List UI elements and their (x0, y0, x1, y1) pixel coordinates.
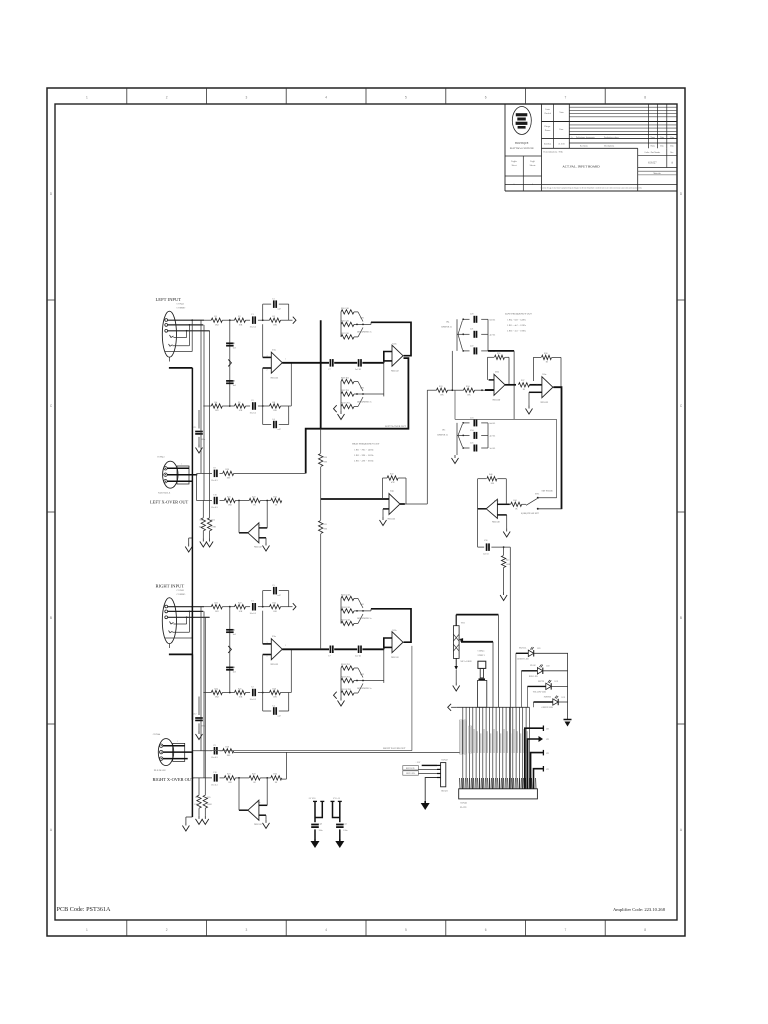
svg-text:R1: R1 (215, 316, 218, 318)
capacitor C8 coupling (358, 359, 360, 367)
potentiometer VR1 (MCA-SUB) (453, 626, 459, 659)
svg-text:C2: C2 (251, 400, 254, 402)
svg-text:Fogli: Fogli (530, 160, 535, 163)
plate teeth (459, 778, 461, 789)
svg-text:2: 2 (166, 96, 168, 100)
resistor R32 feedback (387, 476, 398, 480)
svg-text:1 JK1 = 7K5 = 140Hz: 1 JK1 = 7K5 = 140Hz (354, 450, 373, 452)
svg-text:4n7 63: 4n7 63 (490, 435, 496, 437)
wire right row A out (234, 751, 460, 753)
svg-text:RR6 15K: RR6 15K (341, 320, 349, 322)
svg-text:Data/Date: Data/Date (544, 144, 551, 146)
svg-text:DIP/JUMPER 3x: DIP/JUMPER 3x (357, 618, 372, 620)
svg-text:R30: R30 (324, 457, 327, 459)
resistor R 100K b (203, 795, 207, 808)
svg-text:Revisione: Revisione (580, 145, 588, 147)
capacitor C30 out (478, 546, 485, 548)
svg-text:U1a: U1a (272, 636, 276, 638)
resistor Rsum2 (319, 521, 323, 534)
pin wire (462, 707, 464, 789)
svg-text:C9: C9 (213, 467, 216, 469)
wire phase contact top (539, 497, 557, 499)
U5 feedback (487, 357, 489, 380)
svg-text:7: 7 (565, 928, 567, 932)
svg-text:NE5532: NE5532 (254, 824, 263, 826)
svg-text:RED LED-: RED LED- (406, 773, 415, 775)
resistor R2 (235, 318, 246, 322)
svg-text:U3a: U3a (257, 802, 261, 804)
svg-text:+15 V30: +15 V30 (308, 798, 317, 800)
title block (504, 104, 506, 191)
wire U6 -in (529, 391, 542, 393)
svg-text:R32: R32 (390, 474, 393, 476)
svg-text:C11: C11 (193, 427, 196, 429)
svg-text:C23: C23 (470, 417, 473, 419)
svg-text:RIGHT INPUT: RIGHT INPUT (156, 584, 185, 589)
wire row B mid (235, 777, 249, 779)
capacitor mid vertical 1 (229, 320, 231, 406)
connector CON41 (combo XLR) (162, 311, 176, 357)
arrow out row1 (293, 317, 296, 324)
svg-text:R2: R2 (238, 316, 241, 318)
svg-text:SW2: SW2 (360, 674, 364, 676)
svg-text:NE5530: NE5530 (492, 522, 501, 524)
jumper block JP5 (456, 423, 458, 448)
pin name text columns (460, 720, 463, 754)
pin 2 wire (437, 768, 441, 770)
svg-text:JUMPER 3x: JUMPER 3x (441, 327, 453, 329)
resistor R 100K a (198, 778, 200, 795)
svg-text:GREEN LED: GREEN LED (542, 707, 554, 709)
svg-text:RR9 7K5: RR9 7K5 (341, 390, 349, 392)
wire LED1 (516, 652, 528, 654)
wire input row 2 (203, 405, 211, 407)
jumper mid (228, 646, 231, 653)
svg-text:NE5532: NE5532 (388, 519, 397, 521)
wire opamp output bus (282, 362, 329, 364)
svg-text:1: 1 (181, 464, 182, 466)
pin wire (512, 707, 514, 789)
wire LED2 out (543, 670, 568, 672)
svg-text:R22: R22 (252, 774, 256, 776)
pin wire (472, 707, 474, 789)
resistor R34 (464, 388, 475, 392)
svg-text:V31 -15: V31 -15 (333, 798, 341, 800)
svg-text:10K: 10K (467, 395, 471, 397)
wire LED common (567, 653, 569, 719)
svg-text:22.10.03: 22.10.03 (558, 144, 564, 146)
svg-text:CH: CH (546, 753, 549, 755)
svg-text:R22: R22 (252, 496, 256, 498)
svg-text:RR210 7K5: RR210 7K5 (341, 689, 351, 691)
svg-text:2: 2 (166, 928, 168, 932)
pin wire (485, 707, 487, 789)
wire LED4 (534, 701, 553, 703)
svg-text:U4a: U4a (390, 491, 394, 493)
ground C shield left (198, 445, 200, 448)
svg-text:Preliminare documento: Preliminare documento (576, 137, 595, 139)
op-amp U3 (xover buffer) (248, 523, 259, 543)
box LF to phase (455, 418, 557, 420)
approval rows (542, 121, 678, 123)
wire jack contacts (174, 337, 187, 339)
wire LED4 out (558, 701, 568, 703)
svg-text:C1: C1 (251, 601, 254, 603)
svg-text:C25: C25 (470, 442, 473, 444)
resistor bank A (gain select) (341, 596, 354, 600)
wire row B mid2 (260, 500, 271, 502)
pin wire (492, 707, 494, 789)
op-amp U1 input buffer (271, 352, 282, 373)
svg-text:Firm.: Firm. (559, 129, 564, 131)
svg-text:POWER: POWER (544, 696, 552, 698)
svg-text:10u 6.3: 10u 6.3 (250, 699, 257, 701)
U4 feedback (382, 478, 384, 499)
svg-text:Sheets: Sheets (530, 165, 536, 167)
wire xover row B (191, 752, 193, 778)
capacitor mid vertical 2 (226, 666, 234, 668)
ground pot (455, 683, 457, 686)
pin frame (173, 743, 185, 761)
svg-text:8: 8 (644, 928, 646, 932)
svg-text:CH: CH (546, 769, 549, 771)
svg-text:LED: LED (555, 681, 559, 683)
svg-text:C1: C1 (251, 314, 254, 316)
resistor R22 (235, 605, 246, 609)
svg-text:1: 1 (285, 645, 286, 647)
svg-text:R21: R21 (227, 774, 231, 776)
ground -15 rail (339, 839, 341, 841)
title cell (637, 148, 639, 191)
arrow out row1 (293, 603, 296, 610)
svg-text:MCA-10KB: MCA-10KB (461, 660, 472, 663)
svg-text:ACT.VAL. INPUT BOARD: ACT.VAL. INPUT BOARD (562, 165, 600, 169)
svg-text:U3a: U3a (257, 525, 261, 527)
svg-text:HIGH FREQUENCY CUT: HIGH FREQUENCY CUT (352, 443, 380, 446)
resistor R5 (235, 404, 246, 408)
capacitor C41 (336, 824, 344, 826)
resistor R21 (211, 605, 222, 609)
svg-text:YELLOW LED: YELLOW LED (533, 691, 547, 693)
resistor RB3 (271, 498, 282, 502)
wire to U6 (530, 384, 542, 386)
wire U2 -in (384, 360, 392, 362)
pin wire (508, 707, 510, 789)
pin 1 wire (437, 764, 441, 766)
svg-text:10u 6.3: 10u 6.3 (211, 507, 218, 509)
ground shield left (188, 544, 190, 547)
svg-text:C22: C22 (470, 345, 473, 347)
svg-text:U6a: U6a (543, 374, 547, 376)
wire U7 out (478, 508, 487, 510)
net label RED LED+ (403, 766, 419, 770)
wire pin1 (168, 606, 204, 608)
svg-text:RR5 15K: RR5 15K (341, 308, 349, 310)
svg-text:C2: C2 (251, 687, 254, 689)
part number cell (638, 155, 677, 157)
svg-text:100K: 100K (194, 804, 199, 806)
pin wire (475, 707, 477, 789)
resistor R4 (211, 404, 222, 408)
ground U7 (506, 529, 508, 532)
wire U7 -in (497, 514, 506, 516)
svg-text:DIP/JUMPER 3x: DIP/JUMPER 3x (357, 688, 372, 690)
wire bank1 tap (451, 351, 453, 390)
wire LF chain (427, 389, 436, 391)
svg-text:10K: 10K (273, 697, 277, 699)
resistor RB1 (220, 777, 225, 779)
arrow comb left (448, 704, 451, 711)
resistor R41 series (511, 502, 522, 506)
svg-text:C20: C20 (470, 314, 473, 316)
pin wire (482, 707, 484, 789)
svg-text:2: 2 (267, 370, 268, 372)
svg-text:R31: R31 (324, 524, 327, 526)
svg-text:LED: LED (546, 666, 550, 668)
wire pin2 (168, 610, 204, 612)
capacitor CA (214, 470, 216, 478)
capacitor feedback bottom (262, 693, 264, 712)
resistor Rsum1 (319, 454, 323, 467)
LED D4 GREEN LED (553, 699, 558, 705)
pin wire (469, 707, 471, 789)
U6 feedback (532, 357, 534, 381)
capacitor C40 (311, 824, 319, 826)
svg-text:R37: R37 (521, 380, 524, 382)
svg-text:Rev.: Rev. (670, 152, 674, 154)
ground U3 (265, 820, 267, 823)
pin wire (522, 707, 524, 789)
svg-text:NE5532: NE5532 (271, 378, 280, 380)
resistor RB2 (249, 498, 260, 502)
wire pin drops right (200, 607, 202, 751)
svg-text:RR27 15K: RR27 15K (341, 619, 350, 621)
svg-text:100n: 100n (343, 830, 347, 832)
ground U4 (382, 517, 384, 520)
wire bank1 out bold (488, 350, 514, 352)
disclaimer strip (505, 184, 677, 186)
LED D2 RED LED (537, 668, 542, 674)
U7 feedback (505, 479, 507, 505)
svg-text:Checked: Checked (544, 113, 551, 115)
resistor bank A (gain select) (341, 310, 354, 314)
svg-text:HEAD1: HEAD1 (441, 790, 448, 793)
svg-text:4: 4 (325, 928, 327, 932)
pin wire (465, 707, 467, 789)
svg-text:CH: CH (546, 729, 549, 731)
ground header (424, 801, 426, 803)
svg-text:1K: 1K (275, 782, 278, 784)
svg-text:STRIP 1: STRIP 1 (478, 655, 486, 657)
svg-text:2 JK5 = 4n7 = 120Hz: 2 JK5 = 4n7 = 120Hz (507, 325, 526, 327)
capacitor C24 (473, 432, 475, 439)
wire left out routing (306, 358, 409, 473)
svg-text:XLR MALE: XLR MALE (158, 492, 171, 495)
jumper mid (228, 359, 231, 366)
resistor R24 (211, 690, 222, 694)
svg-text:Drawn: Drawn (545, 130, 550, 132)
svg-text:10K: 10K (440, 395, 444, 397)
svg-text:NE5532: NE5532 (271, 664, 280, 666)
svg-text:613.027: 613.027 (648, 162, 657, 165)
wire xover row A (192, 750, 212, 752)
ground R42 (503, 592, 505, 595)
wire shield bus left (191, 368, 193, 720)
pin frame (177, 466, 189, 484)
capacitor C7 coupling (329, 359, 331, 367)
svg-text:6n8 63: 6n8 63 (490, 319, 496, 321)
ground Ra (198, 816, 200, 819)
resistor RB1 (220, 500, 225, 502)
LED D3 YELLOW LED (546, 683, 551, 689)
connector CON42 (combo XLR) (162, 598, 176, 644)
svg-text:C30: C30 (484, 540, 487, 542)
op-amp U3 (xover buffer) (248, 800, 259, 820)
svg-text:LEFT INPUT: LEFT INPUT (156, 297, 182, 302)
svg-text:A: A (671, 162, 673, 165)
wire xover row A (197, 472, 213, 474)
op-amp U2 gain stage (392, 632, 403, 653)
pin wire (502, 707, 504, 789)
op-amp U6 LF out (542, 377, 553, 398)
svg-text:3 JK3 = 47K = 100Hz: 3 JK3 = 47K = 100Hz (354, 461, 373, 463)
svg-text:47K: 47K (391, 482, 395, 484)
pin wire (518, 707, 520, 789)
svg-text:CON45: CON45 (478, 651, 486, 653)
capacitor C21 (473, 331, 475, 338)
wire U4 +in (321, 498, 389, 500)
svg-text:1K: 1K (253, 782, 256, 784)
svg-text:Denominazione / Title: Denominazione / Title (544, 151, 564, 153)
svg-text:COMBO: COMBO (177, 307, 186, 310)
svg-text:CON43: CON43 (157, 456, 165, 459)
svg-text:PCB Code: PST361A: PCB Code: PST361A (57, 906, 112, 913)
svg-text:Descriptions: Descriptions (604, 145, 614, 147)
pin 3 wire (437, 773, 441, 775)
ground U3 (265, 543, 267, 546)
svg-text:1: 1 (86, 928, 88, 932)
svg-text:NE5532: NE5532 (391, 371, 400, 373)
wire U2 out to gain network (371, 609, 411, 642)
wire C30 to junction (491, 546, 510, 548)
svg-text:NE5532: NE5532 (254, 547, 263, 549)
wire pot top bus (455, 615, 457, 626)
svg-text:7: 7 (565, 96, 567, 100)
wire opamp +in (262, 320, 264, 357)
svg-text:3n3 63: 3n3 63 (490, 448, 496, 450)
wire U5 out (505, 384, 516, 386)
wire U3 -in (259, 814, 266, 816)
svg-text:1K: 1K (275, 505, 278, 507)
wire header gnd (425, 778, 437, 802)
svg-text:10K: 10K (239, 410, 243, 412)
wire pot wiper bus (459, 638, 463, 642)
svg-text:R21: R21 (227, 496, 231, 498)
svg-text:R22: R22 (238, 603, 242, 605)
resistor R6 (270, 404, 281, 408)
svg-text:10K: 10K (324, 462, 328, 464)
wire U2 -in (384, 646, 392, 648)
svg-text:10K: 10K (273, 324, 277, 326)
connector CON44 (XLR male RIGHT X-OVER OUT) (158, 739, 173, 766)
resistor R38 feedback (542, 355, 552, 359)
svg-text:C41: C41 (343, 824, 346, 826)
wire pot bottom (455, 658, 457, 666)
pin wire (488, 707, 490, 789)
svg-text:Codice / Part Number: Codice / Part Number (644, 152, 660, 154)
svg-text:DIP/JUMPER 3x: DIP/JUMPER 3x (357, 402, 372, 404)
svg-text:RED LED+: RED LED+ (406, 768, 416, 770)
svg-text:6: 6 (485, 928, 487, 932)
svg-text:R40: R40 (489, 474, 492, 476)
svg-text:RIGHT X-OVER OUT: RIGHT X-OVER OUT (153, 777, 194, 782)
svg-text:Sheet: Sheet (512, 165, 517, 167)
svg-text:RED LED: RED LED (529, 676, 538, 678)
svg-text:U1a: U1a (272, 350, 276, 352)
capacitor C shield right (198, 697, 200, 716)
svg-text:R25: R25 (207, 797, 210, 799)
wire LED1 out (534, 652, 568, 654)
svg-text:SET PHASE: SET PHASE (542, 490, 554, 493)
ground U6 (528, 406, 530, 409)
capacitor CA (214, 747, 216, 755)
svg-text:0(180) PHASE SET: 0(180) PHASE SET (521, 512, 539, 515)
resistor RB3 (271, 776, 282, 780)
resistor R 100K a (202, 501, 204, 518)
svg-text:RR7 15K: RR7 15K (341, 333, 349, 335)
svg-text:Visto: Visto (559, 112, 563, 114)
ground bank B (340, 698, 342, 701)
svg-text:10K: 10K (239, 324, 243, 326)
wire U3 +in (266, 501, 268, 528)
svg-text:2u2 63: 2u2 63 (483, 554, 489, 556)
wire U3 output (239, 809, 248, 811)
wire U5 +in (485, 389, 494, 391)
op-amp U4 sum (389, 494, 400, 515)
svg-text:LED: LED (537, 648, 541, 650)
resistor R3 (270, 318, 281, 322)
svg-text:SW1: SW1 (360, 604, 364, 606)
capacitor C-in1 (252, 316, 254, 324)
svg-text:6: 6 (485, 96, 487, 100)
capacitor CB (214, 774, 216, 782)
wire opamp -in (262, 655, 264, 693)
svg-text:C9: C9 (213, 745, 216, 747)
capacitor C22 (473, 347, 475, 354)
ground LED common (564, 719, 572, 721)
svg-text:10u 6.3: 10u 6.3 (211, 480, 218, 482)
svg-text:MUTE: MUTE (538, 681, 545, 683)
svg-text:R25: R25 (211, 520, 214, 522)
ground Rb (209, 539, 211, 542)
svg-text:Materiale: Materiale (653, 173, 661, 175)
svg-text:6n8 63: 6n8 63 (490, 423, 496, 425)
capacitor C-in2 (252, 402, 254, 410)
svg-text:4: 4 (325, 96, 327, 100)
wire sub feed down (509, 547, 511, 789)
op-amp U1 input buffer (271, 639, 282, 660)
svg-text:CON42: CON42 (177, 589, 185, 592)
svg-text:RR28 7K5: RR28 7K5 (341, 664, 350, 666)
svg-text:10u 6.3: 10u 6.3 (211, 784, 218, 786)
wire input row 1 (204, 606, 211, 608)
svg-text:3: 3 (246, 928, 248, 932)
svg-text:5: 5 (405, 928, 407, 932)
svg-text:DIP/JUMPER 3x: DIP/JUMPER 3x (357, 332, 372, 334)
svg-text:100n: 100n (201, 726, 205, 728)
svg-text:CH: CH (546, 739, 549, 741)
resistor R26 (270, 690, 281, 694)
